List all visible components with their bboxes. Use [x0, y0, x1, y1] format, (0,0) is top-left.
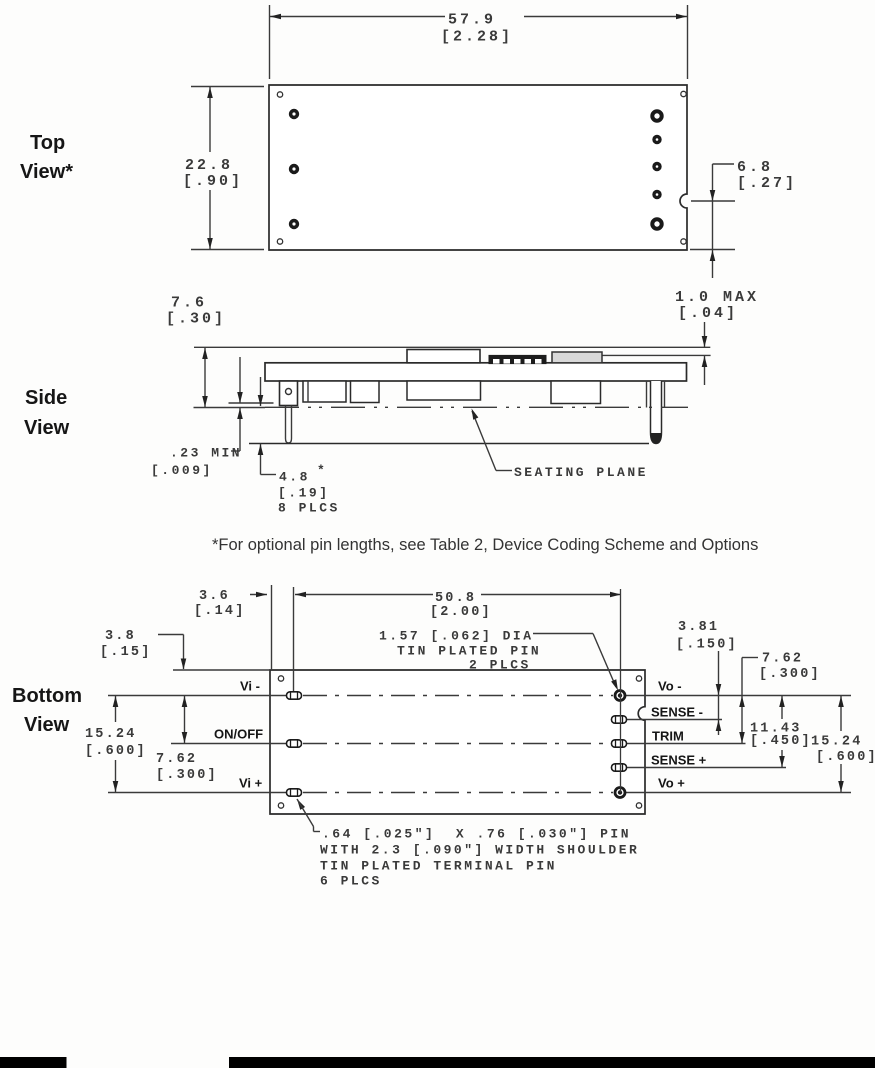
svg-text:ON/OFF: ON/OFF — [214, 727, 263, 742]
terminal pin SENSE+ — [612, 764, 627, 771]
seating plane extension left — [194, 407, 266, 409]
row ON/OFF — [171, 743, 286, 745]
svg-text:TIN PLATED TERMINAL PIN: TIN PLATED TERMINAL PIN — [320, 859, 557, 874]
svg-text:[.27]: [.27] — [737, 175, 797, 192]
svg-text:[.19]: [.19] — [278, 486, 330, 501]
svg-text:TIN PLATED PIN: TIN PLATED PIN — [397, 644, 541, 659]
row TRIM — [627, 743, 746, 745]
svg-text:[.600]: [.600] — [816, 750, 875, 765]
svg-text:7.62: 7.62 — [156, 752, 197, 767]
svg-text:SEATING PLANE: SEATING PLANE — [514, 465, 648, 480]
standoff reference line — [229, 402, 274, 404]
terminal pin SENSE- — [612, 716, 627, 723]
module main board bar — [265, 363, 687, 381]
svg-text:View: View — [24, 417, 70, 439]
dimension 3.6 [.14] — [194, 589, 267, 619]
row Vi+ — [108, 792, 286, 794]
pin Vo- (top view) — [652, 111, 661, 120]
top reference line (max height) — [194, 346, 710, 348]
row SENSE- — [627, 719, 723, 721]
svg-text:SENSE -: SENSE - — [651, 705, 703, 720]
terminal pin ON/OFF — [287, 740, 302, 747]
corner hole bottom-left — [277, 239, 282, 244]
svg-text:50.8: 50.8 — [435, 591, 476, 606]
corner hole top-left — [277, 92, 282, 97]
corner hole top-right — [681, 91, 686, 96]
pin TRIM (top view) — [654, 164, 660, 170]
svg-text:3.81: 3.81 — [678, 620, 719, 635]
pin ON/OFF (top view) — [291, 166, 298, 173]
svg-text:7.6: 7.6 — [171, 295, 207, 312]
back pin lines (right) — [646, 381, 648, 408]
svg-text:8 PLCS: 8 PLCS — [278, 501, 340, 516]
dimension 1.0 MAX [.04] component clearance — [675, 289, 759, 385]
svg-text:Side: Side — [25, 387, 67, 409]
dimension 50.8 [2.00] pin span — [295, 591, 621, 620]
svg-text:[.009]: [.009] — [151, 463, 213, 478]
svg-text:7.62: 7.62 — [762, 652, 803, 667]
component A above board — [407, 350, 480, 363]
pin Vo- (bottom view) — [615, 691, 625, 701]
dimension 6.8 [.27] notch position — [690, 159, 797, 278]
dimension .23 MIN [.009] standoff — [151, 357, 243, 478]
svg-text:6 PLCS: 6 PLCS — [320, 874, 382, 889]
svg-text:SENSE +: SENSE + — [651, 753, 707, 768]
bottom view body outline with notch — [270, 670, 645, 814]
corner hole top-left (bottom view) — [278, 676, 283, 681]
SEATING PLANE callout — [469, 407, 648, 480]
row Vo+ — [626, 792, 851, 794]
svg-text:57.9: 57.9 — [448, 12, 496, 29]
svg-text:Bottom: Bottom — [12, 685, 82, 707]
svg-text:[.30]: [.30] — [166, 311, 226, 328]
svg-text:2 PLCS: 2 PLCS — [469, 658, 531, 673]
pin shoulder (left) — [280, 381, 298, 406]
svg-text:[2.28]: [2.28] — [441, 29, 513, 46]
svg-text:22.8: 22.8 — [185, 157, 233, 174]
shoulder hole — [286, 389, 292, 395]
svg-text:1.0 MAX: 1.0 MAX — [675, 289, 759, 306]
svg-text:Top: Top — [30, 132, 65, 154]
svg-text:[.90]: [.90] — [183, 173, 243, 190]
svg-text:WITH 2.3 [.090″] WIDTH SHOULDE: WITH 2.3 [.090″] WIDTH SHOULDER — [320, 843, 639, 858]
dimension 7.62 [.300] right — [739, 652, 821, 744]
svg-text:Vi +: Vi + — [239, 776, 263, 791]
svg-text:Vo -: Vo - — [658, 679, 682, 694]
corner hole bottom-right — [681, 239, 686, 244]
svg-text:6.8: 6.8 — [737, 159, 773, 176]
dimension 15.24 [.600] right — [811, 696, 875, 793]
callout .64 pin note — [295, 798, 640, 889]
corner hole bottom-right (bottom view) — [636, 803, 641, 808]
component B2 below board — [351, 381, 380, 403]
component C (gray) above board — [552, 352, 602, 363]
svg-text:15.24: 15.24 — [85, 727, 137, 742]
pin Vo+ (bottom view) — [615, 788, 625, 798]
svg-text:.64 [.025″] X .76 [.030″] PIN: .64 [.025″] X .76 [.030″] PIN — [322, 827, 631, 842]
pin SENSE+ (top view) — [654, 192, 660, 198]
svg-text:TRIM: TRIM — [652, 729, 684, 744]
dimension 4.8 [.19] 8 PLCS pin length — [258, 377, 340, 516]
row Vi- — [108, 695, 286, 697]
component B1 below board — [303, 381, 346, 402]
row Vo- — [626, 695, 851, 697]
svg-text:View*: View* — [20, 161, 73, 183]
dimension 11.43 [.450] — [750, 696, 812, 768]
svg-text:.23 MIN: .23 MIN — [170, 446, 242, 461]
svg-text:[.300]: [.300] — [759, 667, 821, 682]
svg-text:[.300]: [.300] — [156, 768, 218, 783]
corner hole top-right (bottom view) — [636, 676, 641, 681]
pin SENSE- (top view) — [654, 137, 660, 143]
svg-text:[.14]: [.14] — [194, 604, 246, 619]
extension line module edge — [271, 585, 273, 670]
dimension 3.81 [.150] — [676, 620, 738, 735]
right long pin (side view) — [651, 381, 662, 444]
svg-text:[.600]: [.600] — [85, 744, 147, 759]
terminal pin TRIM — [612, 740, 627, 747]
svg-text:15.24: 15.24 — [811, 735, 863, 750]
callout 1.57 [.062] DIA TIN PLATED PIN 2 PLCS — [379, 629, 621, 692]
pin Vi+ (top view) — [291, 221, 298, 228]
top view body outline with notch — [269, 85, 687, 250]
svg-text:[2.00]: [2.00] — [430, 605, 492, 620]
footer bar right — [229, 1057, 875, 1068]
module top edge extension — [173, 669, 270, 671]
svg-text:4.8: 4.8 — [279, 470, 310, 485]
svg-text:View: View — [24, 714, 70, 736]
extension line pin column left — [293, 587, 295, 692]
pin Vo+ (top view) — [652, 219, 661, 228]
svg-text:Vo +: Vo + — [658, 776, 685, 791]
dimension 3.8 [.15] — [100, 629, 186, 670]
pin Vi- (top view) — [291, 111, 298, 118]
svg-text:*For optional pin lengths, see: *For optional pin lengths, see Table 2, … — [212, 536, 758, 554]
svg-text:[.15]: [.15] — [100, 645, 152, 660]
pin column centerline through right pins — [620, 589, 622, 793]
svg-text:1.57 [.062] DIA: 1.57 [.062] DIA — [379, 629, 534, 644]
dimension 7.62 [.300] left — [156, 696, 218, 784]
left pin (side view) — [286, 406, 292, 444]
component D below board — [407, 381, 481, 400]
svg-text:Vi -: Vi - — [240, 679, 260, 694]
right pin dark tip — [651, 433, 662, 444]
component E below board — [551, 381, 601, 404]
seating plane centerline (dash-dot-dot) — [265, 406, 688, 408]
corner hole bottom-left (bottom view) — [278, 803, 283, 808]
svg-text:[.450]: [.450] — [750, 734, 812, 749]
dimension 15.24 [.600] left — [85, 696, 147, 793]
dimension 22.8 [.90] height — [183, 87, 264, 250]
footer bar left — [0, 1057, 67, 1068]
svg-text:3.6: 3.6 — [199, 589, 230, 604]
pin tip line — [249, 443, 649, 445]
dimension 7.6 [.30] height — [166, 295, 226, 408]
component B (dark connector) above board — [489, 355, 546, 363]
row SENSE+ — [627, 767, 787, 769]
terminal pin Vi- — [287, 692, 302, 699]
svg-text:[.150]: [.150] — [676, 638, 738, 653]
svg-text:[.04]: [.04] — [678, 305, 738, 322]
svg-text:3.8: 3.8 — [105, 629, 136, 644]
cover top line (right) — [602, 354, 711, 356]
svg-text:*: * — [317, 463, 327, 478]
dimension 57.9 [2.28] width — [270, 5, 688, 79]
terminal pin Vi+ — [287, 789, 302, 796]
